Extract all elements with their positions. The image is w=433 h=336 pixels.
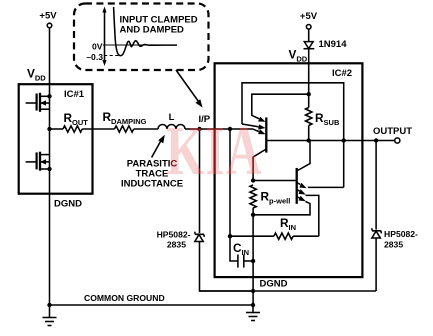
wire node to R_OUT (50, 128, 64, 130)
PNP base bar (265, 117, 267, 152)
common ground line (50, 304, 254, 306)
ground bus line (200, 290, 377, 292)
PNP emitter arrow 1 (258, 117, 265, 122)
callout arrow to I/P (176, 70, 203, 108)
wire inner loop top to PNP emitter 2 (242, 83, 344, 141)
node dot e1 riser (342, 138, 346, 142)
NPN emitter 2 to R_IN (306, 195, 319, 236)
node dot common ground right (251, 303, 255, 307)
wire V_DD node left to PNP emitter 1 (252, 94, 309, 119)
PNP emitter arrow 3 (258, 129, 265, 134)
PMOS transistor IC#1 top (26, 93, 50, 112)
arrow from label to inductor (152, 135, 165, 158)
inductor L (158, 125, 185, 130)
node dot R_IN left (228, 234, 232, 238)
NPN emitter 1 wire (297, 183, 301, 185)
PNP emitter arrow 2 wire (242, 124, 259, 127)
waveform -0.3 dashed level (104, 55, 120, 57)
NPN emitter 3 arrow (299, 196, 306, 202)
ground symbol left (43, 305, 57, 326)
wire I/P down to left schottky (199, 129, 201, 233)
wire left schottky down to ground bus (200, 242, 254, 292)
schottky diode HP5082-2835 right (372, 228, 381, 238)
node dot C_IN right (251, 259, 255, 263)
NPN base bar (296, 168, 298, 204)
node dot R_OUT junction (47, 127, 51, 131)
wire R_SUB to output node (308, 126, 310, 141)
PNP collector to output line (266, 140, 308, 142)
node dot NMOS source (47, 167, 51, 171)
wire C_IN left (230, 236, 238, 261)
dashed callout box (74, 4, 209, 71)
node dot common ground left (47, 303, 51, 307)
OUTPUT terminal (395, 138, 400, 143)
+5V supply terminal left (39, 11, 57, 28)
svg-text:KIA: KIA (166, 113, 263, 191)
node I/P dot (197, 127, 201, 131)
ground symbol right (246, 305, 260, 321)
resistor R_IN (274, 233, 293, 239)
NPN emitter 2 wire (297, 190, 300, 192)
PNP emitter arrow 2 (258, 124, 265, 129)
HP5082-2835 right label (384, 229, 418, 250)
wire PMOS to NMOS vertical (49, 96, 51, 169)
wire 1N914 into IC#2 to R_SUB (308, 49, 310, 108)
NPN emitter 2 arrow (299, 189, 306, 195)
NMOS transistor IC#1 bottom (26, 152, 50, 171)
resistor R_p-well (250, 185, 256, 208)
node dot R_SUB output (307, 138, 311, 142)
resistor R_SUB (306, 108, 312, 126)
capacitor C_IN (238, 255, 253, 268)
wire R_OUT to R_DAMPING (82, 128, 114, 130)
node dot V_DD junction (307, 92, 311, 96)
NPN collector wire (297, 141, 310, 172)
R_IN left wire (230, 235, 274, 237)
IC#2 box (215, 63, 363, 277)
NPN emitter 3 wire (297, 197, 300, 199)
NPN base wire from p-well node (253, 180, 297, 182)
wire IC#1 drain down to common ground (49, 169, 51, 305)
HP5082-2835 left label (157, 230, 191, 250)
wire +5V down into IC#1 (49, 28, 51, 96)
node dot right schottky branch (374, 138, 378, 142)
NPN emitter 1 to riser (308, 186, 344, 188)
wire +5V to 1N914 (308, 29, 310, 41)
diode 1N914 (304, 42, 315, 49)
wire I/P line to PNP emitter 3 (200, 129, 260, 132)
resistor R_OUT (63, 126, 82, 132)
IC#1 box (19, 84, 93, 194)
wire p-well node down (252, 215, 254, 305)
schottky diode HP5082-2835 left (195, 232, 204, 242)
node dot bus DGND (251, 289, 255, 293)
node dot I/P to C_IN branch (228, 127, 232, 131)
wire riser e1 (343, 141, 345, 188)
wire right schottky down to bus (375, 238, 377, 291)
+5V supply terminal right (300, 11, 318, 29)
NPN emitter 3 to p-well bottom (253, 201, 310, 214)
waveform 0V line (103, 44, 177, 46)
INPUT CLAMPED AND DAMPED label (120, 15, 198, 36)
node dot p-well top (251, 178, 255, 182)
PNP collector to p-well node (253, 149, 266, 181)
node dot PMOS source (47, 94, 51, 98)
resistor R_DAMPING (115, 126, 134, 132)
wire right schottky up to output (375, 141, 377, 230)
wire R_p-well to bottom node (252, 208, 254, 215)
output line (309, 140, 395, 142)
waveform vertical double arrow (102, 7, 106, 67)
wire L to I/P (185, 128, 200, 130)
wire R_DAMPING to L (134, 128, 158, 130)
waveform trace (114, 7, 177, 56)
NPN emitter 1 arrow (299, 183, 306, 189)
R_IN right wire (293, 235, 319, 237)
PARASITIC TRACE INDUCTANCE label (121, 159, 183, 190)
node dot p-well bottom (251, 213, 255, 217)
wire I/P branch down to R_IN (229, 129, 231, 236)
